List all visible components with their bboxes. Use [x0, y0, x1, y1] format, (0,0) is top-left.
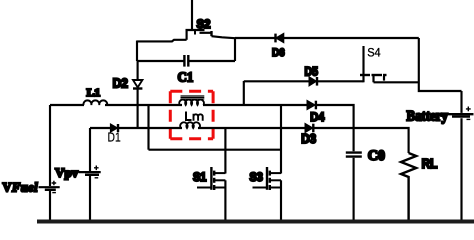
- svg-text:S1: S1: [193, 172, 207, 184]
- svg-text:D1: D1: [108, 130, 121, 145]
- wire D5 to S4: [317, 80, 364, 82]
- svg-text:D3: D3: [301, 132, 316, 146]
- svg-text:D4: D4: [310, 110, 324, 124]
- wire D2 upper lead: [137, 61, 139, 80]
- svg-text:VFuel: VFuel: [3, 181, 39, 195]
- wire S4 right lead: [374, 81, 419, 83]
- wire S2 gate lead: [191, 0, 193, 30]
- wire bus2 to transformer secondary: [118, 127, 182, 129]
- wire S1 drain vertical: [224, 128, 226, 174]
- wire S3 source vertical: [280, 180, 282, 221]
- diode D4: [307, 101, 316, 110]
- wire S2 left lead: [137, 40, 187, 42]
- wire D5 lead: [244, 80, 309, 82]
- transformer primary winding (top): [179, 100, 204, 105]
- svg-text:D2: D2: [113, 77, 128, 91]
- wire C1 right lead: [189, 60, 235, 62]
- svg-text:Vpv: Vpv: [55, 165, 79, 180]
- capacitor C1: [184, 55, 188, 67]
- wire S1 gate lead: [197, 187, 211, 189]
- wire bus3: [149, 149, 282, 151]
- transistor S4: [360, 46, 387, 82]
- wire S3 gate lead: [253, 187, 268, 189]
- wire S1 source vertical: [224, 180, 226, 221]
- node Lm label: [186, 112, 203, 121]
- wire bus1 left segment with L1: [50, 104, 84, 106]
- wire right drop from top bus: [419, 38, 462, 91]
- svg-text:S4: S4: [367, 46, 381, 60]
- wire D5 stub vertical: [243, 81, 245, 105]
- diode D1: [111, 124, 118, 132]
- svg-text:C0: C0: [368, 148, 385, 164]
- wire bus1 right segment to D4: [203, 104, 307, 106]
- svg-text:C1: C1: [178, 71, 194, 86]
- wire C1 left lead: [137, 60, 184, 62]
- svg-text:L1: L1: [87, 88, 101, 99]
- wire bus1 middle segment: [105, 104, 182, 106]
- svg-text:S3: S3: [250, 172, 263, 184]
- transformer secondary winding (bottom, Lm): [180, 122, 200, 128]
- wire bus2 from D3 to RL corner: [313, 128, 408, 153]
- inductor L1: [83, 100, 107, 105]
- svg-text:Battery: Battery: [407, 108, 449, 124]
- wire C1 loop right vertical: [234, 38, 236, 61]
- resistor RL: [401, 153, 416, 222]
- svg-text:RL: RL: [422, 156, 438, 171]
- diode D5: [309, 77, 317, 86]
- battery Vpv source: [79, 128, 101, 222]
- wire S2 right lead: [212, 36, 236, 38]
- svg-text:S2: S2: [197, 17, 211, 31]
- svg-text:D6: D6: [272, 47, 285, 59]
- wire D2 lower lead to bus1 and bus2: [137, 89, 139, 129]
- diode D3: [305, 124, 313, 133]
- wire bus2 middle segment to D3: [198, 127, 305, 129]
- capacitor C0: [346, 153, 362, 222]
- transformer red dashed boundary: [170, 91, 213, 139]
- battery Battery (right source): [447, 91, 474, 222]
- wire top bus to D6 and right corner: [235, 37, 419, 39]
- battery VFuel source: [39, 105, 60, 222]
- diode D2: [133, 80, 142, 89]
- transistor S1: [211, 167, 225, 190]
- transistor S2: [186, 30, 212, 40]
- wire bus2 left segment from Vpv corner with D1: [90, 127, 111, 129]
- wire bus1 from D4 to C0 corner: [316, 105, 354, 151]
- wire C1 loop left vertical: [136, 41, 138, 62]
- wire S3 drain vertical from bus1: [280, 105, 282, 174]
- ground bus (bottom rail): [37, 220, 474, 224]
- transistor S3: [267, 167, 281, 190]
- transformer core lines: [181, 96, 205, 99]
- wire junction vertical bus1 to bus3: [147, 105, 149, 150]
- svg-text:D5: D5: [305, 64, 319, 78]
- diode D6: [276, 34, 284, 43]
